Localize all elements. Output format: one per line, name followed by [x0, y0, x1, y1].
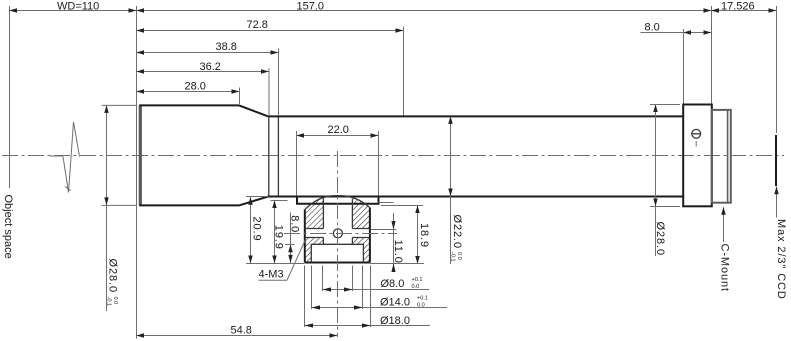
barrel outline top with taper [139, 105, 268, 116]
svg-text:Ø28.0: Ø28.0 [106, 259, 118, 293]
C-Mount label with leader arrow [723, 207, 725, 242]
svg-text:17.526: 17.526 [721, 0, 755, 12]
dimension phi18.0 [305, 325, 431, 327]
set screw slot line [691, 133, 701, 135]
svg-text:4-M3: 4-M3 [259, 269, 284, 281]
svg-text:0.0: 0.0 [412, 284, 420, 290]
extension boss top right [381, 205, 423, 207]
front M3 hole circle [333, 229, 342, 238]
phi8 bore wall left [322, 198, 324, 244]
svg-text:-0.1: -0.1 [450, 252, 456, 262]
ring step edge at 36.2 [268, 116, 270, 196]
dimension 8.0 top (C-mount ring width) [641, 32, 712, 34]
lens barrel front face (thick) [139, 105, 142, 205]
svg-text:72.8: 72.8 [247, 19, 268, 31]
svg-text:Ø18.0: Ø18.0 [380, 315, 410, 327]
svg-text:+0.1: +0.1 [412, 277, 423, 283]
M3 holes horizontal centerline [284, 233, 397, 235]
extension line ring left [683, 29, 685, 104]
dimension 36.2 [137, 71, 270, 73]
extension 20.9 top [246, 196, 268, 198]
svg-text:Object space: Object space [2, 195, 14, 259]
extension boss bottom right [370, 263, 424, 265]
M3 cross holes slot edges [305, 229, 370, 238]
svg-text:Ø14.0: Ø14.0 [380, 297, 410, 309]
dimension 38.8 [137, 52, 279, 54]
svg-text:Ø22.0: Ø22.0 [451, 215, 463, 249]
extension barrel top left [102, 104, 138, 106]
svg-text:8.0: 8.0 [645, 22, 660, 34]
extension slot top right [371, 229, 397, 231]
dimension 19.9 [274, 201, 276, 264]
svg-text:36.2: 36.2 [200, 61, 221, 73]
svg-text:19.9: 19.9 [273, 225, 285, 250]
dimension phi22.0 (tube) [450, 116, 452, 196]
svg-text:+0.1: +0.1 [417, 296, 428, 302]
C-mount thread relief line [727, 110, 729, 203]
extension plate bottom right [379, 202, 394, 204]
image plane extension line [776, 6, 778, 133]
C-mount thread body [712, 110, 731, 203]
dimension phi28.0 right (mount ring) [655, 105, 657, 207]
svg-text:38.8: 38.8 [216, 41, 237, 53]
boss outer wall right [369, 208, 371, 263]
main tube bottom [268, 196, 683, 198]
object plane extension line [9, 6, 11, 188]
svg-text:0.0: 0.0 [456, 252, 462, 260]
dimension phi14.0 [312, 307, 448, 309]
main tube top [268, 115, 683, 117]
set screw circle [692, 129, 701, 138]
dimension 28.0 [137, 91, 240, 93]
svg-text:-0.1: -0.1 [105, 297, 111, 307]
extension lines below boss [305, 266, 371, 328]
extension barrel bottom left [102, 204, 138, 206]
svg-text:22.0: 22.0 [328, 124, 349, 136]
svg-text:11.0: 11.0 [392, 240, 404, 264]
dimension 8.0 (M3 height) [290, 213, 292, 264]
svg-text:Ø8.0: Ø8.0 [381, 278, 405, 290]
extension ring bottom left [650, 206, 680, 208]
dimension phi8.0 [323, 289, 430, 291]
phi8 bore wall right [351, 199, 353, 245]
extension lines 22.0 through tube [296, 131, 298, 196]
boss outer wall left [304, 209, 306, 262]
svg-text:157.0: 157.0 [297, 0, 325, 12]
phi14 counterbore [311, 244, 363, 262]
phi28 mount ring body [683, 105, 712, 207]
dimension 157.0 [137, 10, 712, 12]
svg-text:54.8: 54.8 [231, 324, 252, 336]
extension ring top left [650, 104, 680, 106]
dimension WD=110 [10, 10, 137, 12]
dimension 17.526 [712, 10, 777, 12]
svg-text:0.0: 0.0 [112, 297, 118, 305]
clamp plate under tube [297, 197, 379, 204]
svg-text:28.0: 28.0 [185, 80, 206, 92]
dimension 72.8 [137, 30, 404, 32]
svg-text:Ø28.0: Ø28.0 [654, 222, 666, 256]
boss hatched wall right [353, 199, 370, 229]
front face extension line [136, 6, 138, 339]
svg-text:8.0: 8.0 [289, 215, 301, 233]
main optical axis centerline [2, 155, 784, 157]
boss hatched wall left [305, 198, 323, 228]
dimension 54.8 [137, 335, 338, 337]
svg-text:C-Mount: C-Mount [718, 244, 730, 292]
barrel outline bottom with taper [139, 197, 268, 206]
extension 19.9 top [271, 200, 288, 202]
extension line 72.8 [403, 27, 405, 116]
dimension 11.0 [393, 213, 395, 270]
boss vertical centerline [337, 151, 339, 337]
boss hatched wall left lower (L-shape) [305, 238, 323, 262]
extension line ring right / 157 end [711, 6, 713, 104]
boss hatched wall right lower (L-shape) [353, 238, 370, 262]
extension boss bottom left [246, 263, 305, 265]
set screw center tick [695, 141, 697, 147]
dimension phi28.0 left (barrel) [106, 105, 108, 205]
image plane (thick) [775, 135, 777, 186]
svg-text:20.9: 20.9 [250, 217, 262, 242]
dimension 20.9 [250, 197, 252, 263]
dimension 22.0 (clamp plate width) [297, 135, 379, 137]
dimension 18.9 [417, 206, 419, 265]
Max 2/3 CCD label with leader arrow [776, 187, 778, 218]
svg-text:18.9: 18.9 [418, 223, 430, 248]
boss top intersection curve [305, 196, 370, 210]
boss bottom face [305, 262, 370, 264]
ring step edge at 38.8 [277, 116, 279, 196]
svg-text:WD=110: WD=110 [57, 0, 99, 12]
svg-text:0.0: 0.0 [417, 303, 425, 309]
break symbol on object distance line [50, 122, 80, 193]
svg-text:Max 2/3" CCD: Max 2/3" CCD [775, 219, 787, 300]
